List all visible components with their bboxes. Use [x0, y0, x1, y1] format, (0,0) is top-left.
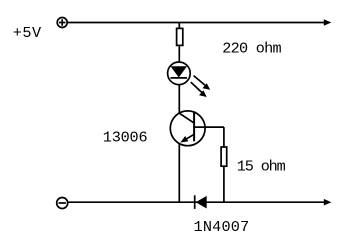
LED light arrows [191, 76, 210, 97]
wire Q1 emitter to bottom rail [178, 144, 180, 202]
svg-text:15 ohm: 15 ohm [237, 158, 286, 176]
LED D1 [168, 62, 191, 85]
svg-text:13006: 13006 [103, 129, 148, 147]
diode D2 1N4007 [195, 195, 207, 209]
resistor R1 [177, 28, 183, 45]
svg-text:+5V: +5V [13, 24, 42, 42]
label 220 ohm [222, 40, 281, 58]
label 1N4007 [194, 218, 250, 236]
wire R1 to LED [178, 46, 180, 62]
wire top rail with arrow [68, 19, 331, 26]
label 15 ohm [237, 158, 286, 176]
wire bottom rail with arrow [69, 199, 332, 206]
wire Q1 base lead [194, 126, 224, 128]
label 13006 [103, 129, 148, 147]
label +5V [13, 24, 42, 42]
transistor Q1 [170, 111, 205, 146]
resistor R2 [221, 147, 227, 166]
wire top rail to R1 [178, 23, 180, 29]
positive supply terminal [57, 18, 67, 28]
svg-text:1N4007: 1N4007 [194, 218, 250, 236]
wire base to R2 [223, 127, 225, 147]
svg-text:220 ohm: 220 ohm [222, 40, 281, 58]
negative supply terminal [57, 198, 68, 209]
wire LED to Q1 collector [178, 85, 180, 114]
wire R2 to bottom rail [223, 166, 225, 202]
